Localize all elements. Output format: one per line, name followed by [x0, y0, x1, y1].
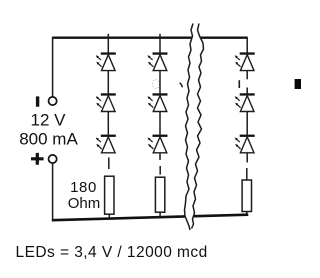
LED D1 string1	[96, 52, 116, 70]
wire string3 stub above D8	[246, 88, 248, 94]
wire string2 D4-D5	[159, 71, 161, 94]
wire string3 to R3	[246, 168, 248, 180]
LED D2 string1	[96, 93, 116, 111]
wire bottom supply rail	[52, 215, 249, 221]
plus polarity mark	[31, 153, 44, 165]
terminal positive	[49, 155, 57, 163]
wire string3 D8-D9	[246, 112, 248, 135]
svg-text:800 mA: 800 mA	[19, 129, 78, 148]
wire string1 R1 to rail	[108, 214, 110, 218]
artifact faint dotted ring	[152, 80, 159, 89]
LED D6 string2	[148, 135, 168, 153]
resistor R2	[155, 177, 164, 212]
wire string2 top stub	[159, 34, 161, 53]
wire string1 D1-D2	[107, 71, 109, 94]
wire string3 D9 stub	[246, 153, 248, 163]
minus polarity mark	[36, 96, 39, 106]
svg-text:LEDs = 3,4 V / 12000 mcd: LEDs = 3,4 V / 12000 mcd	[16, 244, 208, 261]
svg-text:180: 180	[70, 179, 97, 196]
wire string2 D5-D6	[159, 112, 161, 135]
LED D5 string2	[148, 93, 168, 111]
wire string1 D3-R1 dash	[108, 158, 110, 170]
wire left riser positive	[52, 163, 54, 220]
resistor R3	[242, 180, 251, 212]
wire string3 top stub	[246, 38, 248, 53]
wire string1 D2-D3	[107, 112, 109, 135]
LED D4 string2	[148, 52, 168, 70]
tear break mark	[185, 24, 204, 231]
wire string1 top stub	[107, 34, 109, 53]
LED D7 string3	[235, 52, 255, 70]
tick mark left of tear	[180, 83, 183, 88]
svg-text:12 V: 12 V	[31, 110, 67, 129]
wire string3 R3 to rail	[246, 212, 248, 215]
black square marker	[295, 79, 301, 89]
wire string3 offset dash	[238, 80, 240, 88]
wire top supply rail	[52, 37, 248, 39]
wire string2 R2 to rail	[159, 212, 161, 217]
wire left riser negative	[52, 37, 54, 97]
terminal negative	[49, 97, 57, 105]
LED D3 string1	[96, 135, 116, 153]
LED D9 string3	[235, 135, 255, 153]
wire string2 D6 stub	[159, 153, 161, 160]
wire string3 D7 stub	[246, 71, 248, 80]
wire string2 dash to R2	[159, 166, 161, 175]
resistor R1	[105, 176, 114, 214]
svg-text:Ohm: Ohm	[68, 195, 101, 212]
LED D8 string3	[235, 93, 255, 111]
